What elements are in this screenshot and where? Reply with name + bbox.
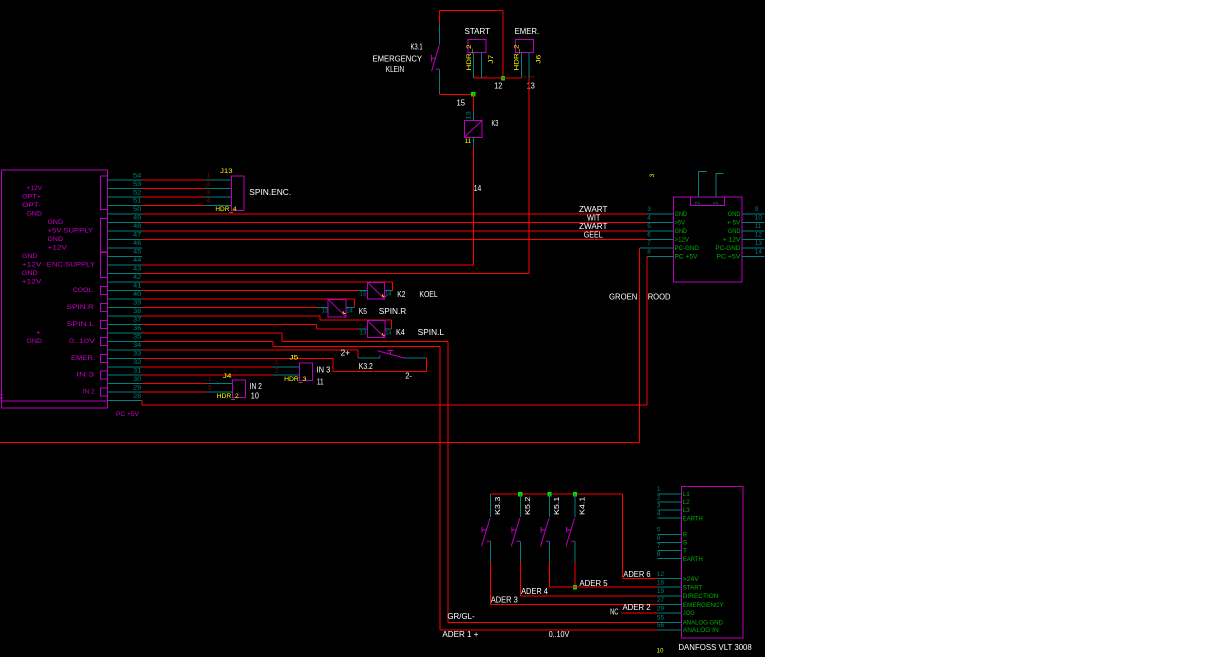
svg-text:+: + — [36, 329, 41, 336]
svg-text:PC +5V: PC +5V — [675, 253, 698, 260]
wire interface pin 8 stub to ROOD — [647, 256, 674, 258]
svg-text:12: 12 — [494, 82, 502, 91]
svg-text:35: 35 — [133, 333, 142, 340]
svg-text:11: 11 — [755, 223, 762, 230]
svg-text:+12V: +12V — [27, 185, 43, 192]
wire interface pin 6 stub — [647, 239, 673, 241]
svg-text:IN 3: IN 3 — [317, 366, 331, 375]
wire VLT pin 8 — [657, 558, 681, 560]
svg-text:>5V: >5V — [675, 219, 686, 226]
svg-text:4: 4 — [647, 215, 651, 222]
svg-text:40: 40 — [133, 291, 142, 298]
svg-text:GND: GND — [728, 211, 741, 218]
svg-text:IN 2: IN 2 — [250, 382, 263, 391]
svg-text:45: 45 — [133, 249, 142, 256]
svg-text:J7: J7 — [488, 54, 495, 63]
svg-text:PC +5V: PC +5V — [116, 411, 139, 418]
svg-text:55: 55 — [657, 615, 665, 622]
svg-text:7: 7 — [647, 240, 651, 247]
svg-text:46: 46 — [133, 240, 142, 247]
wire interface pin 9 stub — [742, 213, 765, 215]
svg-text:ADER 3: ADER 3 — [491, 596, 519, 605]
wire row 54 to J13 — [142, 179, 232, 181]
svg-text:IN 3: IN 3 — [76, 372, 94, 379]
svg-text:13: 13 — [322, 307, 329, 314]
pin 52 stub — [107, 196, 141, 198]
junction node 12 bus — [501, 76, 505, 80]
svg-text:4: 4 — [657, 511, 661, 518]
svg-text:SPIN.R: SPIN.R — [67, 304, 95, 311]
svg-text:19: 19 — [657, 588, 665, 595]
svg-text:18: 18 — [657, 580, 665, 587]
svg-text:K5.2: K5.2 — [523, 497, 532, 515]
controller connector block outline — [2, 170, 108, 408]
pin 33 stub — [107, 357, 141, 359]
wire interface pin 11 stub — [742, 230, 765, 232]
pin box 35 — [100, 337, 107, 345]
pin 54 stub — [107, 179, 141, 181]
svg-text:EMER.: EMER. — [71, 355, 95, 362]
svg-text:41: 41 — [133, 283, 142, 290]
pin 32 stub — [107, 366, 141, 368]
relay coil K3 — [464, 121, 482, 138]
pin 53 stub — [107, 188, 141, 190]
connector J13 — [231, 176, 244, 210]
wire VLT pin 29 — [657, 612, 681, 614]
pin box 37 — [100, 320, 107, 328]
svg-text:JOG: JOG — [683, 610, 695, 617]
interface connector block — [673, 197, 742, 282]
wire interface pin 14 stub — [742, 256, 765, 258]
svg-text:SPIN.L: SPIN.L — [67, 321, 95, 328]
pin 48 stub — [107, 230, 141, 232]
svg-text:13: 13 — [755, 240, 763, 247]
svg-text:OPT-: OPT- — [22, 202, 41, 209]
wire VLT pin 3 — [657, 509, 681, 511]
wire row 29 to J4 pin 2 — [142, 391, 233, 393]
pin box 33 — [100, 354, 107, 362]
svg-text:1: 1 — [208, 376, 212, 383]
wire 14 vertical — [472, 147, 474, 265]
svg-text:37: 37 — [133, 317, 142, 324]
wire row 47 (GEEL) to right block — [142, 239, 674, 241]
wire row 41 (COOL) to K2 pin 13 — [142, 289, 368, 291]
svg-text:50: 50 — [133, 206, 142, 213]
svg-text:30: 30 — [133, 376, 142, 383]
svg-text:5: 5 — [657, 527, 661, 534]
svg-text:ENC.SUPPLY: ENC.SUPPLY — [47, 262, 96, 269]
svg-text:52: 52 — [133, 189, 142, 196]
pin 43 stub — [107, 273, 141, 275]
wire +24V bus — [491, 493, 623, 495]
wire ADER 6 to VLT pin 12 — [623, 494, 658, 579]
svg-text:HDR_3: HDR_3 — [284, 376, 307, 383]
wire VLT pin 4 — [657, 517, 681, 519]
svg-text:33: 33 — [133, 350, 142, 357]
contact K4.1 — [566, 494, 575, 562]
svg-text:EMER.: EMER. — [515, 27, 540, 36]
svg-text:4: 4 — [207, 198, 211, 205]
wire K5.2 drop — [519, 563, 521, 596]
contact K3.3 — [482, 494, 491, 562]
wire row 37 (SPIN.L) to K4 pin 13 — [142, 324, 368, 329]
wire ADER 2 (NC) to VLT pin 29 — [622, 612, 658, 614]
svg-text:2: 2 — [275, 367, 279, 374]
svg-text:T: T — [683, 548, 688, 555]
svg-text:54: 54 — [133, 172, 142, 179]
svg-text:EARTH: EARTH — [683, 515, 703, 522]
svg-text:14: 14 — [385, 329, 392, 336]
junction bus / K4.1 — [573, 492, 577, 496]
svg-text:J6: J6 — [536, 54, 543, 63]
svg-text:ADER 6: ADER 6 — [623, 570, 651, 579]
wire VLT pin 5 — [657, 533, 681, 535]
svg-text:3: 3 — [649, 173, 656, 177]
svg-text:+5V SUPPLY: +5V SUPPLY — [48, 228, 94, 235]
svg-text:>24V: >24V — [683, 576, 699, 583]
svg-text:2: 2 — [207, 181, 211, 188]
svg-text:K4: K4 — [396, 328, 405, 337]
wire K3 coil pin 11 stub — [472, 137, 474, 147]
svg-text:L2: L2 — [683, 499, 690, 506]
pin 38 stub — [107, 315, 141, 317]
svg-text:K2: K2 — [397, 290, 406, 299]
wire interface pin 12 stub — [742, 239, 765, 241]
svg-text:PC-GND: PC-GND — [715, 245, 740, 252]
svg-text:ADER 2: ADER 2 — [623, 603, 652, 612]
svg-text:8: 8 — [657, 551, 661, 558]
svg-text:9: 9 — [755, 206, 759, 213]
wire row 44 to node 14 — [142, 264, 474, 266]
svg-text:10: 10 — [251, 391, 260, 400]
svg-text:HDR_2: HDR_2 — [217, 393, 239, 400]
svg-text:ANALOG GND: ANALOG GND — [683, 619, 723, 626]
svg-text:SPIN.ENC.: SPIN.ENC. — [249, 188, 291, 197]
junction ADER 5 node — [573, 585, 577, 589]
wire J6 pin 2 — [520, 53, 522, 79]
wire VLT pin 56 — [657, 629, 681, 631]
svg-text:2+: 2+ — [341, 349, 351, 358]
pin 50 stub — [107, 213, 141, 215]
svg-text:ADER 1 +: ADER 1 + — [442, 630, 478, 639]
svg-text:START: START — [683, 584, 703, 591]
svg-text:2: 2 — [694, 201, 701, 205]
wire interface pin 5 stub — [647, 230, 673, 232]
svg-text:HDR_2: HDR_2 — [514, 44, 521, 70]
pin 51 stub — [107, 205, 141, 207]
svg-text:L1: L1 — [683, 491, 690, 498]
wire top loop horizontal — [439, 9, 503, 11]
svg-text:39: 39 — [133, 300, 142, 307]
pin 28 stub — [107, 400, 141, 402]
wire row 28 to ROOD — [142, 401, 647, 406]
svg-text:EMERGENCY: EMERGENCY — [683, 602, 724, 609]
wire row 38 to K4 pin 14 — [142, 316, 392, 329]
svg-text:GND: GND — [728, 228, 741, 235]
svg-text:+12V: +12V — [22, 262, 42, 269]
svg-text:PC +5V: PC +5V — [716, 253, 740, 260]
svg-text:10: 10 — [755, 215, 763, 222]
wire row 35 (0..10V) to ADER 1+ (VLT pin 56) — [142, 341, 658, 630]
svg-text:1: 1 — [207, 172, 211, 179]
drive DANFOSS VLT 3008 outline — [682, 486, 743, 637]
pin box 41 — [100, 286, 107, 294]
wire row 53 to J13 — [142, 188, 232, 190]
pin 39 stub — [107, 306, 141, 308]
junction bus / K5.2 — [518, 492, 522, 496]
svg-text:27: 27 — [657, 597, 665, 604]
svg-text:IN 2: IN 2 — [83, 389, 95, 396]
svg-text:EARTH: EARTH — [683, 556, 703, 563]
pin 40 stub — [107, 298, 141, 300]
svg-text:3: 3 — [207, 189, 211, 196]
svg-text:DIRECTION: DIRECTION — [683, 593, 719, 600]
pin 46 stub — [107, 247, 141, 249]
svg-text:44: 44 — [133, 257, 142, 264]
svg-text:GND: GND — [22, 253, 38, 260]
svg-text:43: 43 — [133, 266, 142, 273]
pin 30 stub — [107, 383, 141, 385]
svg-text:EMERGENCY: EMERGENCY — [373, 55, 423, 64]
wire top loop left vertical — [438, 10, 440, 23]
svg-text:ADER 4: ADER 4 — [521, 587, 548, 596]
wire J7 pin 2 — [472, 53, 474, 79]
svg-text:K5: K5 — [359, 307, 368, 316]
wire VLT pin 7 — [657, 550, 681, 552]
pin group box 54-51 — [100, 176, 107, 209]
junction node 15 — [471, 92, 475, 96]
wire ADER 4 to VLT pin 19 — [520, 595, 657, 597]
svg-text:GEEL: GEEL — [584, 230, 603, 239]
svg-text:3: 3 — [657, 502, 661, 509]
wire START pin1 to EMER pin2 — [473, 77, 521, 79]
svg-text:COOL.: COOL. — [73, 287, 94, 294]
svg-text:R: R — [683, 532, 688, 539]
svg-text:PC-GND: PC-GND — [675, 245, 699, 252]
svg-text:DANFOSS VLT 3008: DANFOSS VLT 3008 — [678, 643, 752, 652]
wire VLT pin 18 — [657, 586, 681, 588]
svg-text:SPIN.L: SPIN.L — [418, 328, 445, 337]
svg-text:HDR_4: HDR_4 — [215, 206, 237, 213]
svg-text:3: 3 — [647, 206, 651, 213]
svg-text:2: 2 — [208, 384, 212, 391]
svg-text:+12V: +12V — [48, 245, 68, 252]
svg-text:+12V: +12V — [22, 279, 42, 286]
svg-text:12: 12 — [755, 232, 763, 239]
wire notch pin 1 hook — [716, 173, 724, 197]
svg-text:GND: GND — [27, 211, 43, 218]
svg-text:OPT+: OPT+ — [22, 194, 41, 201]
wire top loop right vertical — [502, 10, 504, 78]
svg-text:32: 32 — [133, 359, 142, 366]
wire row 42 to K2 pin 14 — [142, 282, 392, 290]
wire J6 pin 1 — [528, 53, 530, 79]
wire ROOD vertical — [646, 257, 648, 406]
junction bus / K5.1 — [547, 492, 551, 496]
svg-text:47: 47 — [133, 232, 142, 239]
svg-text:SPIN.R: SPIN.R — [379, 307, 407, 316]
wire row 30 to J4 pin 1 — [142, 383, 233, 385]
svg-text:8: 8 — [647, 248, 651, 255]
relay coil K5 — [328, 299, 346, 316]
svg-text:13: 13 — [360, 290, 367, 297]
wire interface pin 3 stub — [647, 213, 673, 215]
wire row 48 (ZWART) to right block — [142, 230, 674, 232]
svg-text:1: 1 — [713, 201, 720, 205]
wire VLT pin 55 — [657, 621, 681, 623]
wire row 43 to node 13 — [142, 273, 529, 275]
svg-text:34: 34 — [133, 342, 142, 349]
wire VLT pin 12 — [657, 578, 681, 580]
pin box 31 — [100, 371, 107, 379]
wire row 34 (2+) to K3.2 left contact — [142, 350, 380, 358]
pin 41 stub — [107, 289, 141, 291]
wire VLT pin 2 — [657, 501, 681, 503]
svg-text:1: 1 — [275, 359, 279, 366]
svg-text:7: 7 — [657, 543, 661, 550]
relay coil K4 — [368, 321, 385, 338]
svg-text:J5: J5 — [289, 355, 298, 362]
contact K3.2 blade — [377, 351, 404, 359]
svg-text:0..10V: 0..10V — [549, 630, 570, 639]
svg-text:HDR_2: HDR_2 — [466, 44, 473, 70]
wire node 15 down to K3 coil — [472, 94, 474, 111]
svg-text:C: C — [0, 393, 4, 400]
wire ADER 5 to VLT pin 18 — [550, 586, 658, 588]
svg-text:KOEL: KOEL — [419, 290, 438, 299]
switch K3.1 (EMERGENCY KLEIN) — [432, 23, 440, 93]
pin box 39 — [100, 303, 107, 311]
pin mark yellow (K4) — [382, 333, 385, 335]
svg-text:15: 15 — [457, 99, 466, 108]
pin 44 stub — [107, 264, 141, 266]
svg-text:6: 6 — [657, 535, 661, 542]
wire VLT pin 1 — [657, 493, 681, 495]
wire K4.1 drop — [574, 563, 576, 588]
wire K5.1 drop — [549, 563, 551, 588]
wire interface pin 10 stub — [742, 222, 765, 224]
svg-text:J13: J13 — [220, 168, 233, 175]
pin box 29 — [100, 388, 107, 396]
wire VLT pin 19 — [657, 595, 681, 597]
pin 29 stub — [107, 391, 141, 393]
svg-text:11: 11 — [465, 138, 472, 145]
wire VLT pin 27 — [657, 604, 681, 606]
svg-text:+ 12V: + 12V — [723, 236, 741, 243]
wire ADER 3 to VLT pin 27 — [491, 604, 658, 606]
svg-text:36: 36 — [133, 325, 142, 332]
svg-text:ANALOG IN: ANALOG IN — [683, 627, 719, 634]
wire row 49 (WIT) to right block — [142, 222, 674, 224]
wire K3 coil pin 13 stub — [472, 111, 474, 120]
svg-text:L3: L3 — [683, 507, 690, 514]
svg-text:38: 38 — [133, 308, 142, 315]
svg-text:14: 14 — [474, 184, 482, 193]
svg-text:14: 14 — [346, 307, 353, 314]
wire row 51 to J13 — [142, 205, 232, 207]
svg-text:51: 51 — [133, 198, 142, 205]
svg-text:5: 5 — [647, 223, 651, 230]
pin 37 stub — [107, 323, 141, 325]
svg-text:K3.2: K3.2 — [359, 362, 373, 371]
wire interface pin 13 stub — [742, 247, 765, 249]
svg-text:10: 10 — [657, 648, 664, 655]
svg-text:13: 13 — [466, 111, 473, 120]
relay coil K2 — [368, 282, 385, 299]
svg-text:31: 31 — [133, 367, 142, 374]
svg-text:2: 2 — [521, 75, 528, 79]
wire notch pin 2 hook — [699, 172, 708, 197]
pin 49 stub — [107, 222, 141, 224]
wire row 40 to K5 pin 14 — [142, 299, 355, 308]
svg-text:1: 1 — [529, 75, 536, 79]
connector J4 (IN 2) — [233, 380, 246, 398]
wire interface pin 4 stub — [647, 222, 673, 224]
wire row 36 to GR/GL- (VLT pin 55) — [142, 333, 658, 623]
pin 47 stub — [107, 239, 141, 241]
svg-text:12: 12 — [657, 571, 665, 578]
svg-text:START: START — [465, 27, 491, 36]
svg-text:14: 14 — [755, 248, 763, 255]
svg-text:KLEIN: KLEIN — [386, 65, 405, 74]
svg-text:6: 6 — [647, 232, 651, 239]
pin 45 stub — [107, 256, 141, 258]
svg-text:S: S — [683, 540, 688, 547]
svg-text:2: 2 — [474, 75, 481, 79]
connector J5 (IN 3) — [299, 363, 312, 381]
svg-text:K3: K3 — [492, 119, 499, 128]
pin 35 stub — [107, 340, 141, 342]
svg-text:56: 56 — [657, 622, 665, 629]
svg-text:1: 1 — [482, 75, 489, 79]
svg-text:29: 29 — [133, 384, 142, 391]
wire row 50 (ZWART) to right block — [142, 213, 674, 215]
svg-text:29: 29 — [657, 605, 665, 612]
svg-text:K3.1: K3.1 — [411, 42, 423, 51]
pin 36 stub — [107, 332, 141, 334]
svg-text:GND: GND — [27, 338, 43, 345]
svg-text:1: 1 — [657, 486, 661, 493]
wire row 52 to J13 — [142, 196, 232, 198]
wire interface pin 7 stub to GROEN — [639, 247, 673, 249]
wire K3.3 drop — [490, 563, 492, 605]
connector J7 (START) — [468, 39, 486, 52]
svg-text:GND: GND — [22, 270, 38, 277]
svg-text:ADER 5: ADER 5 — [579, 579, 608, 588]
svg-text:42: 42 — [133, 274, 142, 281]
pin group box 49-46 — [100, 219, 107, 252]
pin 31 stub — [107, 374, 141, 376]
svg-text:GROEN: GROEN — [609, 293, 638, 302]
svg-text:GND: GND — [48, 219, 64, 226]
wire from K3.1 to node 15 — [439, 93, 473, 94]
svg-text:ROOD: ROOD — [648, 293, 671, 302]
svg-text:48: 48 — [133, 223, 142, 230]
contact K5.2 — [512, 494, 521, 562]
wire K3.2 right contact to row 33 (2-) — [142, 358, 427, 371]
svg-text:GND: GND — [675, 211, 688, 218]
pin mark yellow (K2) — [383, 294, 386, 296]
wire VLT pin 6 — [657, 542, 681, 544]
svg-text:NC: NC — [610, 608, 618, 617]
wire row 32 to J5 pin 1 — [142, 366, 300, 368]
svg-text:14: 14 — [385, 290, 392, 297]
contact K5.1 — [541, 494, 550, 562]
svg-text:49: 49 — [133, 215, 142, 222]
svg-text:K4.1: K4.1 — [578, 497, 587, 515]
wire 13 vertical (EMER pin1 down) — [528, 78, 530, 273]
svg-text:0..10V: 0..10V — [69, 338, 96, 345]
